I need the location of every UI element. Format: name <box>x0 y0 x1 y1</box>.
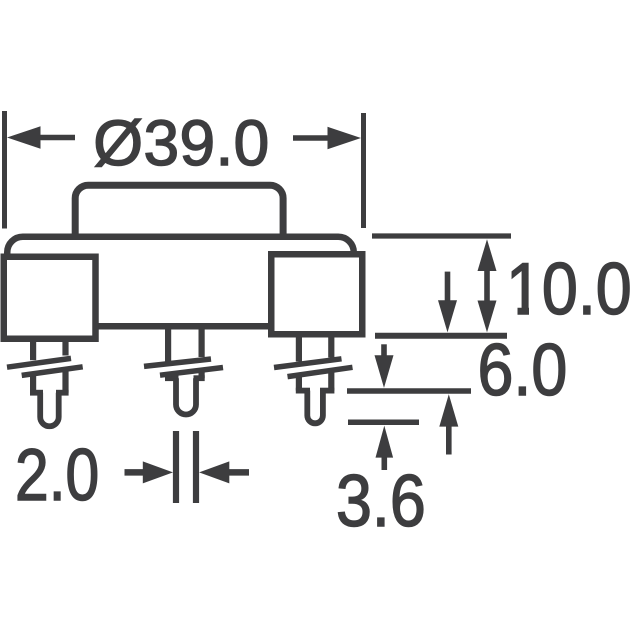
svg-text:2.0: 2.0 <box>15 435 99 517</box>
svg-text:Ø39.0: Ø39.0 <box>93 107 269 179</box>
svg-text:3.6: 3.6 <box>336 460 426 542</box>
svg-text:6.0: 6.0 <box>478 329 568 411</box>
svg-text:10.0: 10.0 <box>506 248 632 330</box>
